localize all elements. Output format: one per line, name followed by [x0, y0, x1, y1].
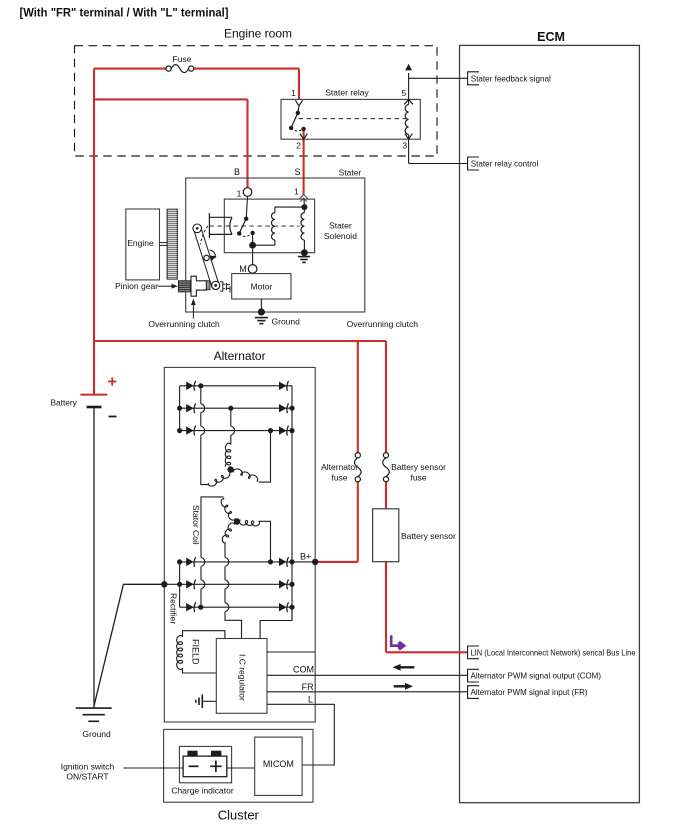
- relay link dashed line: [299, 118, 407, 120]
- svg-text:Stater: Stater: [329, 221, 352, 231]
- svg-text:Charge indicator: Charge indicator: [171, 785, 234, 795]
- svg-text:Overrunning clutch: Overrunning clutch: [347, 319, 419, 329]
- stator2 phase Y coil: [222, 523, 234, 543]
- stator2 phase X wire: [201, 497, 224, 607]
- svg-text:[With "FR" terminal / With "L": [With "FR" terminal / With "L" terminal]: [20, 8, 229, 20]
- svg-text:I.C regulator: I.C regulator: [238, 654, 248, 701]
- stater box: [186, 178, 365, 312]
- terminal M ring: [248, 265, 257, 274]
- relay pin2 arrow: [300, 134, 307, 140]
- svg-text:Stater: Stater: [339, 167, 362, 177]
- stator2 phase Z wire: [259, 521, 271, 562]
- rectifier left bus bottom: [179, 562, 181, 607]
- battery negative plate: [87, 406, 102, 409]
- svg-text:Engine: Engine: [127, 238, 154, 248]
- relay pin5 wire up: [408, 73, 410, 99]
- solenoid contact down wire: [252, 233, 254, 245]
- relay pin3 arrow: [405, 134, 412, 140]
- svg-text:Stater relay: Stater relay: [325, 88, 369, 98]
- alternator B+ exit dot: [312, 559, 318, 565]
- COM direction arrow: [399, 666, 414, 668]
- lever rotation arrow: [210, 250, 216, 258]
- stater feedback signal bracket: [468, 72, 479, 85]
- battery ground symbol: [76, 707, 112, 709]
- svg-text:Engine room: Engine room: [224, 27, 292, 41]
- wire battery to fuses horizontal: [94, 340, 386, 342]
- rectifier left bus top: [179, 386, 181, 431]
- svg-text:L: L: [308, 695, 313, 705]
- relay pin5 chevron: [404, 100, 413, 105]
- svg-text:Fuse: Fuse: [173, 54, 192, 64]
- svg-text:3: 3: [402, 141, 407, 151]
- stator2 phase Y wire: [225, 543, 242, 639]
- solenoid to motor wire: [252, 249, 254, 265]
- alternator ground entry dot: [161, 581, 167, 587]
- solenoid box: [224, 199, 314, 253]
- svg-text:Battery sensor: Battery sensor: [391, 462, 446, 472]
- lever bottom circle: [212, 281, 220, 289]
- ring gear rack: [167, 209, 177, 279]
- MICOM box: [255, 737, 302, 795]
- IC regulator box: [216, 639, 267, 714]
- svg-text:5: 5: [401, 88, 406, 98]
- FR direction arrow: [394, 685, 407, 687]
- stator2 phase Z coil: [239, 520, 259, 526]
- engine box: [126, 209, 160, 280]
- svg-text:1: 1: [291, 88, 296, 98]
- solenoid coil junction dot: [301, 204, 307, 210]
- stator wye center dot top: [227, 466, 233, 472]
- rectifier junction dots: [198, 383, 203, 388]
- alternator fuse: [355, 453, 360, 458]
- battery negative wire: [93, 407, 95, 708]
- wire battery positive rail vertical: [93, 69, 95, 394]
- wire relay 2 to solenoid S: [303, 129, 305, 195]
- svg-text:2: 2: [296, 141, 301, 151]
- lever middle joint: [204, 255, 209, 260]
- ECM box: [460, 45, 640, 802]
- solenoid hold-in coil: [301, 213, 304, 240]
- FR wire: [267, 691, 468, 693]
- rectifier to regulator right link: [260, 607, 292, 638]
- stator2 phase X coil: [221, 499, 235, 520]
- svg-text:1: 1: [237, 189, 242, 199]
- stator phase W wire: [259, 431, 271, 483]
- battery plus sign: [108, 377, 116, 385]
- solenoid ground symbol: [298, 256, 310, 258]
- wire battery sensor to LIN vertical: [385, 562, 387, 653]
- field coil: [177, 636, 183, 670]
- svg-text:Alternator PWM signal output (: Alternator PWM signal output (COM): [471, 671, 602, 681]
- relay switch arm: [291, 113, 298, 128]
- FR bracket: [468, 686, 479, 699]
- stater relay control wire: [409, 163, 468, 165]
- wire alternator fuse to B+ vertical: [357, 482, 359, 562]
- LIN direction arrow: [391, 635, 401, 649]
- relay contact dot 1: [296, 111, 300, 115]
- wire starter B branch horizontal: [94, 98, 248, 100]
- rectifier B+ row wire: [180, 561, 316, 563]
- svg-text:1: 1: [294, 187, 299, 197]
- rectifier top row3 wire: [180, 430, 292, 432]
- solenoid dashed centerline: [209, 225, 299, 227]
- battery minus sign: [109, 416, 117, 418]
- field coil top wire: [183, 631, 225, 639]
- stator phase V wire: [231, 408, 235, 444]
- svg-text:Motor: Motor: [251, 282, 273, 292]
- svg-text:FR: FR: [302, 682, 314, 692]
- rectifier right diodes D4 D5 D6 D10 D11 D12: [279, 382, 287, 390]
- battery sensor fuse: [383, 453, 388, 458]
- wire B+ horizontal: [315, 561, 358, 563]
- solenoid hold-in leads: [303, 207, 305, 213]
- solenoid arm dot: [237, 231, 241, 235]
- solenoid plunger: [209, 213, 232, 238]
- indicator to micom wire: [227, 767, 255, 769]
- stator wye center dot bottom: [234, 518, 240, 524]
- regulator ground wire: [202, 700, 216, 702]
- fuse F1: [166, 66, 171, 71]
- wire relay terminal 1 drop: [298, 69, 300, 100]
- overrunning clutch arrow: [192, 303, 194, 319]
- clutch spline marks: [227, 283, 231, 293]
- svg-text:Alternator PWM signal input (F: Alternator PWM signal input (FR): [471, 687, 588, 697]
- wire LIN horizontal: [386, 651, 468, 653]
- overrunning clutch gray insert: [206, 281, 210, 290]
- motor ground wire: [260, 299, 262, 312]
- relay pin5 arrow: [405, 64, 412, 71]
- svg-text:Overrunning clutch: Overrunning clutch: [148, 319, 220, 329]
- solenoid pull-in coil lead: [274, 240, 276, 245]
- svg-text:Battery: Battery: [51, 398, 78, 408]
- wire starter B drop: [246, 99, 248, 187]
- terminal S chevron: [299, 195, 308, 202]
- ground wire to rectifier: [94, 584, 164, 706]
- svg-text:M: M: [239, 264, 247, 274]
- relay pin1 arrow: [295, 100, 302, 106]
- relay pin3 wire down: [408, 139, 410, 163]
- clutch right piece: [220, 282, 225, 291]
- battery sensor box: [373, 509, 399, 562]
- charge indicator outer box: [179, 746, 231, 782]
- engine room dashed box: [75, 46, 438, 156]
- rectifier right bus: [291, 386, 293, 621]
- rectifier top row1 wire: [180, 385, 292, 387]
- svg-text:Stator Coil: Stator Coil: [191, 505, 201, 545]
- motor ground symbol: [255, 317, 268, 319]
- rectifier top row2 wire: [180, 407, 292, 409]
- L wire: [267, 704, 334, 765]
- lever pivot top circle: [193, 224, 202, 233]
- wire battery sensor fuse drop: [385, 341, 387, 453]
- COM wire: [267, 674, 468, 676]
- relay switch contact wire: [298, 106, 299, 113]
- rectifier left diodes D1 D2 D3 D7 D8 D9: [186, 382, 194, 390]
- alternator box: [164, 367, 315, 722]
- svg-text:B+: B+: [300, 552, 311, 562]
- LIN bracket: [468, 646, 479, 659]
- svg-text:S: S: [294, 167, 300, 177]
- stater feedback signal wire: [409, 77, 468, 79]
- svg-text:ON/START: ON/START: [66, 772, 108, 782]
- svg-text:Stater relay control: Stater relay control: [471, 159, 539, 169]
- svg-text:COM: COM: [293, 665, 314, 675]
- stater relay box: [281, 99, 420, 139]
- stator phase W coil: [233, 469, 258, 481]
- terminal B ring: [243, 188, 252, 197]
- engine shaft: [160, 242, 168, 244]
- relay contact dot 3: [301, 127, 305, 131]
- stator phase U wire: [201, 386, 209, 485]
- solenoid pull-in coil: [272, 213, 275, 240]
- lever arm outline: [194, 228, 219, 289]
- svg-text:Stater feedback signal: Stater feedback signal: [471, 73, 551, 83]
- overrunning clutch flange plate: [191, 276, 206, 296]
- stator center stub top: [230, 467, 232, 470]
- field coil bottom wire: [183, 668, 217, 673]
- svg-text:Ground: Ground: [272, 317, 301, 327]
- relay coil top lead: [408, 99, 410, 104]
- wire fuse to relay horizontal: [194, 68, 299, 70]
- wire fuse to battery sensor: [385, 482, 387, 509]
- solenoid dashed contact arc: [239, 233, 252, 236]
- solenoid contact dot B: [244, 217, 248, 221]
- solenoid S lead: [303, 199, 305, 207]
- solenoid B contact wire: [246, 196, 247, 218]
- stator phase V coil: [225, 443, 231, 467]
- battery positive plate: [80, 394, 107, 396]
- charge indicator battery icon: [183, 756, 227, 777]
- motor box: [232, 274, 291, 299]
- wire alternator fuse drop: [357, 341, 359, 453]
- svg-text:Battery sensor: Battery sensor: [401, 531, 456, 541]
- wire fuse feed horizontal left: [94, 68, 166, 70]
- motor ground dot: [258, 308, 265, 315]
- svg-text:B: B: [234, 167, 240, 177]
- ignition wire: [123, 767, 183, 769]
- solenoid contact dot 2: [250, 231, 254, 235]
- solenoid junction dot big: [249, 242, 256, 249]
- svg-text:Alternator: Alternator: [214, 349, 266, 363]
- regulator ground symbol: [201, 695, 203, 709]
- svg-text:Alternator: Alternator: [321, 462, 358, 472]
- solenoid switch arm: [239, 219, 246, 234]
- COM bracket: [468, 669, 479, 682]
- regulator sense wire: [267, 651, 315, 653]
- relay contact dashed arc: [291, 128, 304, 131]
- svg-text:Cluster: Cluster: [218, 808, 260, 823]
- relay coil: [405, 105, 408, 135]
- rectifier bottom row3 wire: [180, 606, 292, 608]
- stator phase U coil: [208, 471, 230, 486]
- stater relay control bracket: [468, 157, 479, 170]
- svg-text:Solenoid: Solenoid: [324, 231, 357, 241]
- svg-text:fuse: fuse: [410, 473, 426, 483]
- pinion gear block: [179, 281, 191, 292]
- rectifier bottom row2 wire: [164, 583, 292, 585]
- svg-text:Ground: Ground: [82, 729, 111, 739]
- pinion gear arrow: [158, 285, 174, 287]
- relay contact dot 2: [289, 126, 293, 130]
- svg-text:LIN (Local Interconnect Networ: LIN (Local Interconnect Network) serical…: [471, 647, 636, 657]
- svg-text:Pinion gear: Pinion gear: [115, 281, 158, 291]
- relay coil bottom lead: [408, 135, 410, 140]
- svg-text:MICOM: MICOM: [263, 759, 294, 769]
- cluster box: [164, 729, 313, 802]
- svg-text:FIELD: FIELD: [191, 639, 201, 665]
- svg-text:Rectifier: Rectifier: [168, 593, 178, 624]
- lever dashed link to plunger: [200, 226, 208, 244]
- solenoid pull-in bottom wire: [253, 244, 275, 246]
- svg-text:Ignition switch: Ignition switch: [61, 762, 115, 772]
- svg-text:fuse: fuse: [331, 473, 347, 483]
- svg-text:ECM: ECM: [537, 30, 565, 44]
- solenoid ground dot: [301, 249, 308, 256]
- solenoid pull-in top wire: [275, 207, 305, 213]
